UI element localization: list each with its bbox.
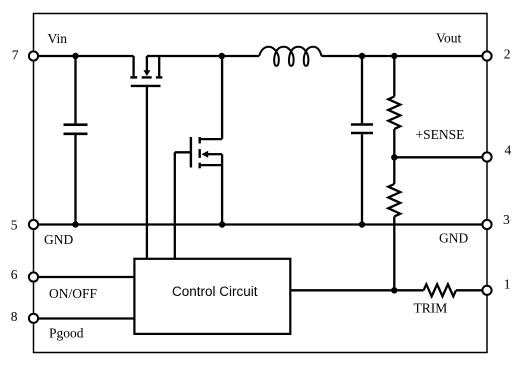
svg-text:4: 4	[505, 143, 512, 158]
pin 4 terminal	[482, 152, 491, 161]
svg-text:GND: GND	[439, 231, 468, 246]
pin 8 terminal	[29, 314, 38, 323]
svg-text:Pgood: Pgood	[49, 326, 84, 341]
svg-text:ON/OFF: ON/OFF	[49, 286, 98, 301]
junction dot output cap bottom	[359, 221, 365, 227]
transistor Q1 high-side MOSFET	[130, 56, 162, 86]
wire switch node down to Q2 drain	[221, 56, 223, 139]
module outline	[34, 14, 488, 353]
wire pin 6 ON/OFF to control circuit	[38, 276, 134, 278]
wire ground rail pin 5 to pin 3	[38, 223, 482, 225]
junction dot input cap bottom	[72, 221, 78, 227]
resistor R2 sense divider lower	[388, 157, 400, 290]
svg-text:GND: GND	[44, 232, 73, 247]
junction dot sense divider top	[391, 53, 397, 59]
junction dot trim node	[391, 287, 397, 293]
resistor R1 sense divider upper	[388, 56, 400, 157]
wire switch node to inductor	[222, 55, 259, 57]
inductor L1	[259, 47, 321, 66]
svg-text:3: 3	[503, 212, 510, 227]
wire control circuit to trim node	[290, 289, 423, 291]
wire Q1 gate to control circuit	[146, 86, 148, 259]
svg-text:5: 5	[11, 217, 18, 232]
pin 5 terminal	[29, 220, 38, 229]
svg-text:7: 7	[12, 47, 19, 62]
wire inductor to pin 2 Vout	[321, 55, 482, 58]
svg-text:Control Circuit: Control Circuit	[172, 284, 258, 299]
wire Vin rail from pin 7 to Q1 source	[38, 55, 134, 57]
wire Q2 gate to control circuit	[174, 152, 176, 258]
pin 6 terminal	[29, 272, 38, 281]
wire pin 8 Pgood to control circuit	[38, 317, 134, 319]
junction dot sense node	[391, 154, 397, 160]
pin 1 terminal	[482, 286, 491, 295]
junction dot Q2 source at ground	[219, 221, 225, 227]
wire Q1 drain to switch node	[147, 55, 222, 57]
pin 7 terminal	[29, 51, 38, 60]
svg-text:1: 1	[504, 276, 511, 291]
node switch junction dot	[219, 53, 225, 59]
pin 2 terminal	[482, 51, 491, 60]
wire sense node to pin 4	[394, 156, 482, 158]
resistor R3 TRIM	[424, 284, 456, 296]
svg-text:Vin: Vin	[48, 31, 68, 46]
wire trim resistor to pin 1	[456, 289, 482, 291]
svg-text:2: 2	[504, 47, 511, 62]
junction dot output cap top	[359, 53, 365, 59]
svg-text:TRIM: TRIM	[414, 301, 448, 316]
svg-text:Vout: Vout	[436, 30, 462, 45]
junction dot input cap top	[72, 53, 78, 59]
capacitor C1 input	[64, 56, 88, 225]
wire Q2 source to ground rail	[221, 154, 223, 224]
capacitor C2 output	[351, 56, 373, 225]
svg-text:8: 8	[11, 309, 18, 324]
control circuit block U1	[134, 259, 290, 334]
svg-text:6: 6	[11, 267, 18, 282]
svg-text:+SENSE: +SENSE	[416, 127, 465, 142]
pin 3 terminal	[482, 220, 491, 229]
transistor Q2 synchronous MOSFET	[175, 137, 222, 168]
